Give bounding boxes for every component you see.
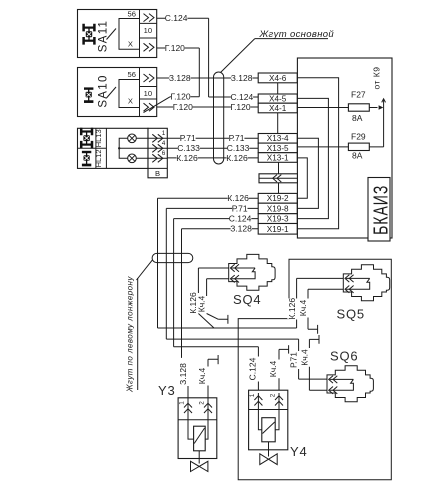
harness oval (Жгут основной)	[214, 72, 224, 164]
connector X13-5	[258, 143, 297, 153]
svg-text:Р.71: Р.71	[289, 352, 299, 368]
wire С.133 HL pin4 to X13-5	[167, 143, 258, 153]
leader line Жгут основной	[221, 39, 255, 73]
svg-text:10: 10	[144, 89, 152, 98]
HL connector column with pins 1,4,6 and B	[148, 128, 167, 178]
fuse F29 8A	[297, 132, 383, 161]
svg-text:F29: F29	[351, 132, 366, 142]
svg-text:X19-8: X19-8	[267, 205, 289, 214]
svg-text:С.124: С.124	[229, 214, 252, 224]
wire Кч.4 SQ4 to ground	[197, 279, 229, 320]
svg-text:Г.120: Г.120	[231, 102, 251, 112]
lamp wiring	[118, 138, 148, 158]
svg-text:2: 2	[270, 393, 277, 397]
svg-text:Кч.4: Кч.4	[298, 299, 308, 316]
fog lamp unit HL12/HL13	[78, 128, 149, 169]
pressure switch SQ5	[337, 265, 390, 322]
svg-text:В: В	[155, 169, 160, 178]
svg-text:от К9: от К9	[372, 67, 382, 90]
harness oval Жгут по левому лонжерону	[152, 253, 193, 262]
feed wire from К9	[382, 99, 386, 147]
svg-text:З.128: З.128	[169, 73, 191, 83]
wire Р.71 HL pin1 to X13-4	[167, 133, 258, 143]
connector X13-1	[258, 153, 297, 163]
svg-text:10: 10	[144, 26, 152, 35]
svg-text:БКАИЗ: БКАИЗ	[369, 185, 392, 235]
svg-text:SA11: SA11	[98, 20, 110, 52]
solenoid valve Y3	[158, 383, 217, 472]
ground at SQ6	[309, 335, 319, 344]
connector X19-8	[258, 203, 297, 214]
svg-text:X: X	[128, 40, 133, 49]
svg-text:Жгут по левому лонжерону: Жгут по левому лонжерону	[126, 276, 135, 393]
wire Г.120 from SA10.X to X4-1	[157, 102, 259, 112]
solenoid valve Y4	[249, 390, 308, 464]
link X4-1 to X13-4	[277, 113, 279, 134]
wire К.126 SQ4 branch	[188, 268, 229, 328]
svg-text:X13-5: X13-5	[267, 144, 289, 153]
svg-text:З.128: З.128	[178, 363, 188, 385]
svg-text:X19-3: X19-3	[267, 215, 289, 224]
svg-text:Y4: Y4	[290, 444, 308, 459]
svg-text:X: X	[128, 97, 133, 106]
wire К.126 bottom distribution	[158, 327, 297, 329]
svg-text:1: 1	[179, 401, 186, 405]
svg-text:К.126: К.126	[227, 193, 249, 203]
svg-text:X19-2: X19-2	[267, 194, 289, 203]
wire З.128 to Y3	[178, 263, 188, 401]
svg-text:8А: 8А	[352, 151, 363, 161]
connector X19-1	[258, 224, 297, 235]
connector X4-6	[258, 73, 297, 83]
wire Р.71 to SQ6	[166, 339, 327, 379]
wire С.124 from SA11 to X4-5	[157, 13, 259, 102]
svg-text:Кч.4: Кч.4	[300, 349, 310, 366]
svg-text:HL12: HL12	[94, 149, 103, 167]
svg-text:К.126: К.126	[176, 153, 198, 163]
wire С.124 to Y4	[174, 347, 259, 393]
svg-text:SQ4: SQ4	[233, 292, 261, 307]
wire Кч.4 Y3 to ground	[197, 355, 218, 401]
svg-text:X13-1: X13-1	[267, 153, 289, 162]
svg-text:8А: 8А	[352, 113, 363, 123]
wire К.126 X19-2 to left	[158, 193, 259, 328]
ground at SQ5	[308, 325, 318, 334]
svg-text:X4-1: X4-1	[269, 104, 287, 113]
switch SA10	[78, 68, 157, 117]
svg-text:56: 56	[128, 10, 136, 19]
link X13-1 to inline connector	[278, 162, 280, 174]
svg-text:Кч.4: Кч.4	[268, 360, 278, 377]
internal bracket С.124 X4-5 to X19-3	[297, 98, 328, 218]
svg-text:С.124: С.124	[248, 357, 258, 380]
label Жгут основной	[255, 29, 335, 40]
wire К.126 SQ5 branch	[287, 278, 344, 328]
svg-text:HL13: HL13	[94, 129, 103, 147]
fuse F27 8A	[297, 90, 383, 123]
svg-text:X4-5: X4-5	[269, 94, 287, 103]
svg-text:Р.71: Р.71	[229, 133, 245, 143]
svg-text:SQ6: SQ6	[330, 349, 358, 364]
svg-text:К.126: К.126	[287, 298, 297, 320]
link X4-6 to X4-5	[277, 83, 279, 94]
link connector to X19-2	[278, 183, 280, 194]
ground at SQ4	[218, 315, 228, 324]
svg-text:SQ5: SQ5	[337, 307, 365, 322]
pressure switch SQ6	[327, 349, 373, 402]
svg-text:1: 1	[249, 393, 256, 397]
svg-text:Кч.4: Кч.4	[197, 367, 207, 384]
lamp HL12	[128, 154, 137, 163]
wire Г.120 net SA11.X - SA10.X	[144, 43, 200, 113]
БКАИЗ block outline	[297, 58, 392, 238]
svg-text:С.124: С.124	[231, 92, 254, 102]
svg-text:SA10: SA10	[98, 74, 110, 107]
wire Р.71 X19-8 to left	[166, 203, 258, 339]
big enclosure box bottom right	[238, 259, 391, 480]
svg-text:4: 4	[162, 140, 166, 147]
svg-text:З.128: З.128	[230, 224, 252, 234]
wire З.128 from SA10.56 to X4-6	[157, 73, 259, 83]
svg-text:З.128: З.128	[231, 73, 253, 83]
svg-text:Р.71: Р.71	[232, 203, 248, 213]
switch SA11	[78, 10, 157, 58]
wire Кч.4 SQ5 to ground	[298, 289, 343, 329]
svg-text:6: 6	[162, 150, 166, 157]
connector X13-4	[258, 134, 297, 144]
svg-text:2: 2	[199, 401, 206, 405]
connector X4-1	[258, 103, 297, 113]
svg-text:Г.120: Г.120	[171, 92, 191, 102]
svg-text:Г.120: Г.120	[173, 102, 193, 112]
pressure switch SQ4	[229, 254, 275, 307]
connector X4-5	[258, 94, 297, 103]
svg-text:Кч.4: Кч.4	[197, 295, 207, 312]
wire Кч.4 SQ6 to ground	[300, 339, 327, 390]
svg-text:X13-4: X13-4	[267, 134, 289, 143]
svg-text:Г.120: Г.120	[165, 43, 185, 53]
svg-text:F27: F27	[351, 90, 366, 100]
internal bracket З.128 X4-6 to X19-1	[297, 78, 338, 229]
svg-text:Р.71: Р.71	[180, 133, 196, 143]
svg-text:Y3: Y3	[158, 383, 176, 398]
svg-text:56: 56	[128, 70, 136, 79]
connector X19-2	[258, 193, 297, 203]
svg-text:С.133: С.133	[177, 143, 200, 153]
БКАИЗ name box	[368, 178, 392, 242]
internal bracket К.126 X13-1 to X19-2	[297, 158, 307, 198]
wire З.128 X19-1 to left	[182, 224, 259, 358]
lamp HL13	[128, 134, 137, 143]
wire С.124 X19-3 to left	[174, 214, 259, 347]
label Жгут по левому лонжерону	[126, 276, 138, 393]
leader line	[137, 260, 153, 280]
inline connector box <<	[259, 174, 297, 183]
wire Кч.4 Y4 to ground	[268, 345, 288, 393]
svg-text:X19-1: X19-1	[267, 225, 289, 234]
svg-text:1: 1	[162, 130, 166, 137]
svg-text:С.133: С.133	[227, 143, 250, 153]
svg-text:X4-6: X4-6	[269, 74, 287, 83]
svg-text:С.124: С.124	[165, 13, 188, 23]
internal bracket Р.71 X13-4 to X19-8	[297, 138, 318, 208]
connector X19-3	[258, 214, 297, 224]
wire К.126 HL pin6 to X13-1	[167, 153, 258, 163]
svg-text:К.126: К.126	[226, 153, 248, 163]
